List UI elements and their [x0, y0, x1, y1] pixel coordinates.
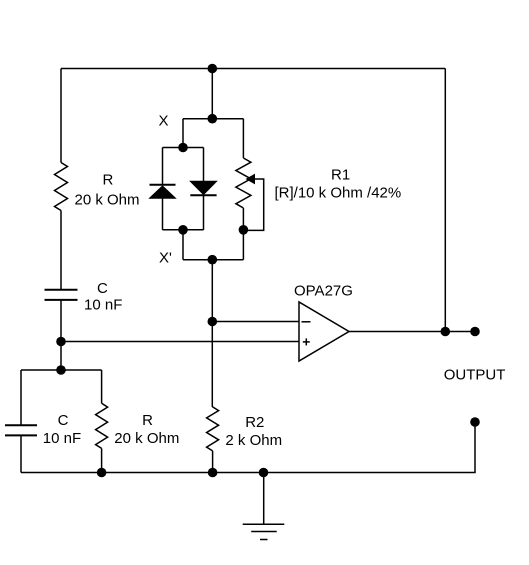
svg-text:2 k Ohm: 2 k Ohm [225, 432, 282, 449]
svg-text:10 nF: 10 nF [84, 297, 122, 314]
svg-text:OPA27G: OPA27G [294, 282, 353, 299]
node output terminal upper [470, 327, 480, 337]
wire to op-amp inverting input [212, 321, 299, 323]
wire potentiometer branch upper [242, 119, 244, 158]
wire X' horizontal [183, 259, 243, 261]
svg-text:R: R [142, 412, 153, 429]
wire R2 upper stub [211, 406, 213, 408]
wire diode box top horizontal [163, 147, 204, 149]
resistor R 20 k Ohm (bottom) [96, 403, 108, 448]
svg-text:X': X' [159, 249, 172, 266]
wire diode box bottom stub to X' [182, 230, 184, 260]
wire bottom resistor branch lower [101, 448, 103, 472]
node output terminal lower [470, 417, 480, 427]
svg-text:X: X [159, 113, 169, 130]
op-amp U1 OPA27G triangle [299, 302, 349, 361]
node diode box bottom junction [178, 225, 188, 235]
resistor R2 2 k Ohm [207, 407, 219, 451]
svg-text:20 k Ohm: 20 k Ohm [75, 191, 140, 208]
node minus-input junction [208, 317, 218, 327]
svg-text:R1: R1 [331, 167, 350, 184]
node RC network top junction [56, 365, 66, 375]
svg-text:[R]/10 k Ohm /42%: [R]/10 k Ohm /42% [275, 185, 402, 202]
wire right diode branch lower [203, 195, 205, 230]
diode D2 (right, cathode down) [190, 181, 216, 195]
wire diode-branch vertical X to box top [182, 119, 184, 148]
wire left vertical from capacitor C to bottom RC network [60, 301, 62, 370]
diode D1 (left, cathode up) [150, 185, 176, 199]
node X junction [208, 114, 218, 124]
ground [243, 473, 285, 540]
potentiometer R1 wiper arm [243, 175, 263, 231]
wire X horizontal [183, 118, 243, 120]
capacitor C 10 nF (bottom) [5, 425, 37, 435]
svg-text:C: C [97, 280, 108, 297]
wire left diode branch upper [162, 148, 164, 185]
wire RC network top horizontal [21, 369, 102, 371]
wire lower output to bottom rail [21, 422, 475, 473]
node R2 bottom junction [208, 468, 218, 478]
capacitor C 10 nF (left, series) [45, 290, 78, 300]
resistor R 20 k Ohm (left) [55, 163, 68, 211]
wire to op-amp non-inverting input [61, 341, 299, 343]
svg-text:R: R [103, 172, 114, 189]
node output junction [441, 327, 451, 337]
node bottom resistor junction [97, 468, 107, 478]
node top junction [208, 64, 218, 74]
wire right vertical feedback rail [444, 69, 446, 332]
wire left vertical from top rail to resistor R [60, 69, 62, 163]
node X' junction [208, 255, 218, 265]
wire diode box bottom horizontal [163, 229, 204, 231]
wire bottom resistor branch upper [101, 370, 103, 403]
node diode box top junction [178, 143, 188, 153]
wire op-amp output horizontal [349, 331, 475, 333]
node ground junction [259, 468, 269, 478]
op-amp plus sign [303, 338, 310, 345]
wire right diode branch upper [203, 148, 205, 182]
wire potentiometer branch lower [242, 208, 244, 260]
potentiometer R1 zigzag [236, 158, 251, 208]
op-amp minus sign [302, 321, 311, 323]
svg-text:R2: R2 [245, 414, 264, 431]
svg-text:OUTPUT: OUTPUT [444, 367, 506, 384]
node potentiometer bottom junction [239, 225, 249, 235]
svg-text:20 k Ohm: 20 k Ohm [114, 430, 179, 447]
wire center vertical from X' to R2 [211, 260, 213, 407]
wire R2 lower [212, 451, 214, 473]
svg-text:C: C [58, 412, 69, 429]
wire top horizontal rail [61, 68, 445, 70]
wire bottom capacitor branch upper [20, 370, 22, 425]
wire center vertical from top rail to node X [211, 69, 213, 119]
wire left vertical from resistor R to capacitor C [60, 211, 62, 290]
wire bottom capacitor branch lower [20, 436, 22, 472]
svg-text:10 nF: 10 nF [43, 430, 81, 447]
node plus-input junction on left wire [56, 337, 66, 347]
wire left diode branch lower [162, 198, 164, 230]
